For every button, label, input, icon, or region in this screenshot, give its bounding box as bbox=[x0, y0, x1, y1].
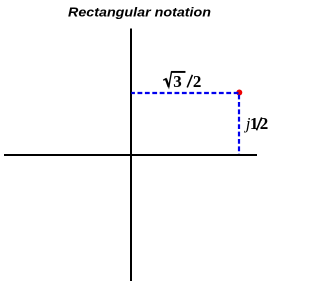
wire: dashed horizontal projection line bbox=[131, 92, 239, 94]
real (horizontal) axis bbox=[4, 154, 257, 156]
label sqrt(3)/2 : radical sign bbox=[163, 72, 185, 87]
svg-text:3: 3 bbox=[173, 72, 182, 91]
imaginary (vertical) axis bbox=[130, 29, 132, 282]
label j 1/2 : slash bbox=[257, 117, 262, 130]
point at sqrt(3)/2 + j1/2 bbox=[236, 90, 242, 96]
svg-text:2: 2 bbox=[260, 114, 269, 133]
label sqrt(3)/2 : slash bbox=[187, 75, 192, 88]
svg-text:2: 2 bbox=[193, 72, 202, 91]
svg-text:Rectangular notation: Rectangular notation bbox=[68, 4, 211, 19]
wire: dashed vertical projection line bbox=[238, 93, 240, 155]
